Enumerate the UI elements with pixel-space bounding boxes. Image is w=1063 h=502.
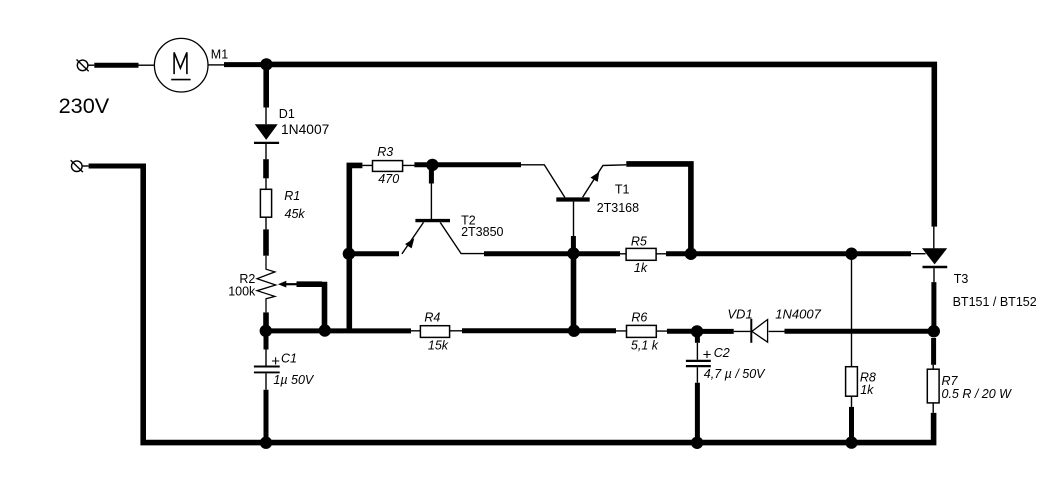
wire C1 to bottom rail: [264, 390, 269, 442]
wire left drop and bottom rail and right rise to R7: [143, 164, 933, 443]
wire VD1 to node F: [785, 329, 934, 334]
resistor R5 body: [626, 248, 656, 260]
node J junction dot: [845, 248, 857, 260]
potentiometer R2 zigzag: [257, 256, 276, 313]
svg-text:R6: R6: [631, 311, 647, 325]
thyristor T3 cathode lead: [933, 268, 935, 282]
capacitor C2 leads: [696, 343, 698, 383]
resistor R4 body: [420, 326, 449, 338]
svg-text:BT151 / BT152: BT151 / BT152: [953, 295, 1037, 309]
svg-text:470: 470: [378, 172, 399, 186]
wire T2 collector to node H: [484, 251, 573, 256]
svg-text:+: +: [271, 353, 280, 370]
resistor R7 leads: [932, 365, 934, 413]
diode D1 leads: [265, 107, 267, 189]
capacitor C1 plates: [254, 367, 280, 373]
svg-text:R7: R7: [942, 374, 959, 388]
svg-text:R3: R3: [377, 145, 393, 159]
bottom rail junction dot right: [845, 436, 857, 448]
wire node I to node J: [691, 251, 852, 256]
svg-text:R1: R1: [284, 189, 300, 203]
transistor T2 emitter arrow: [405, 238, 414, 248]
resistor R4 leads: [411, 330, 462, 332]
wire node K down to T2 base: [429, 165, 434, 184]
node E junction dot: [691, 325, 703, 337]
transistor T1 collector line: [521, 165, 565, 198]
svg-text:1N4007: 1N4007: [281, 122, 329, 137]
wire node D to R6: [574, 328, 616, 333]
node I junction dot: [685, 248, 697, 260]
node D junction dot: [568, 325, 580, 337]
wire R4 to node D: [462, 328, 574, 333]
wire node J to T3 gate: [852, 251, 912, 256]
wire motor to node A: [224, 62, 266, 67]
transistor T1 emitter line: [583, 165, 627, 198]
svg-text:0.5 R / 20 W: 0.5 R / 20 W: [942, 387, 1013, 401]
svg-text:100k: 100k: [228, 285, 256, 299]
node G junction dot: [343, 248, 355, 260]
svg-text:VD1: VD1: [727, 306, 752, 321]
node B junction dot: [260, 325, 272, 337]
wire R7 top to node F: [931, 338, 936, 365]
wire terminal2 to left drop: [89, 164, 144, 169]
wire R3 to T1 collector: [414, 162, 521, 167]
svg-text:+: +: [703, 346, 712, 363]
wire gate rail left segment from node G: [352, 251, 400, 256]
resistor R7 body: [927, 369, 939, 403]
resistor R8 bottom lead: [851, 396, 853, 407]
wire T1 base to node H: [571, 236, 576, 248]
svg-text:45k: 45k: [285, 207, 306, 221]
wire T1 emitter to node I corner: [626, 164, 691, 254]
resistor R6 body: [627, 325, 657, 337]
wire C2 to bottom rail: [695, 383, 700, 442]
wire top rail and right drop to T3 anode: [266, 64, 934, 226]
resistor R1 leads: [265, 217, 267, 229]
svg-text:C1: C1: [281, 352, 297, 366]
wire node E down to C2: [695, 332, 700, 343]
bottom rail junction dot left: [260, 437, 272, 449]
svg-text:1k: 1k: [860, 383, 874, 397]
resistor R8 body: [846, 367, 858, 397]
transistor T1 base bar: [556, 197, 589, 201]
node C junction dot: [319, 324, 331, 336]
wire R5 to node I: [666, 251, 691, 256]
wire node B rail to R4: [265, 328, 411, 333]
svg-text:1k: 1k: [634, 261, 648, 275]
wire node B down to C1: [264, 334, 269, 350]
transistor T2 base lead: [430, 184, 432, 220]
wire node E to VD1: [697, 329, 734, 334]
svg-text:D1: D1: [279, 107, 295, 121]
bottom rail junction dot middle: [691, 437, 703, 449]
resistor R6 leads: [616, 330, 667, 332]
wire node H down to node D: [571, 254, 577, 331]
svg-text:T3: T3: [954, 272, 969, 286]
resistor R1 body: [260, 189, 271, 217]
svg-text:R5: R5: [631, 235, 647, 249]
transistor T2 emitter line: [402, 222, 424, 254]
svg-text:C2: C2: [714, 346, 730, 360]
svg-text:R4: R4: [424, 311, 440, 325]
wire node H to R5: [573, 251, 620, 256]
wire R2 bottom to node B: [263, 312, 269, 331]
wire R1 to R2: [263, 229, 269, 255]
wire node F up to T3 cathode: [931, 282, 936, 331]
terminal X2: [71, 160, 89, 172]
diode D1 body: [254, 124, 279, 143]
svg-text:M1: M1: [211, 48, 228, 62]
resistor R3 leads: [362, 164, 414, 166]
diode VD1 body: [751, 319, 767, 343]
wire R6 to node E: [667, 329, 692, 334]
transistor T1 emitter arrow: [590, 172, 599, 182]
transistor T2 base bar: [415, 219, 450, 222]
svg-text:1N4007: 1N4007: [775, 306, 821, 321]
node F junction dot: [928, 325, 940, 337]
resistor R5 leads: [620, 253, 666, 255]
wire R3 corner and left vertical to node B rail: [349, 165, 362, 331]
svg-text:1µ 50V: 1µ 50V: [273, 373, 315, 387]
thyristor T3 anode lead: [933, 227, 935, 249]
transistor T1 base lead: [573, 202, 575, 236]
node H junction dot: [567, 247, 579, 259]
thyristor T3 body: [922, 248, 947, 267]
wire R2 wiper to node C: [297, 282, 325, 330]
transistor T2 collector line: [440, 222, 484, 253]
svg-text:2T3850: 2T3850: [461, 225, 503, 239]
thyristor T3 gate lead: [911, 253, 926, 255]
resistor R8 top wire from node J: [851, 257, 853, 367]
potentiometer R2 wiper arrow: [278, 281, 286, 288]
diode VD1 leads: [734, 330, 785, 332]
svg-text:4,7 µ / 50V: 4,7 µ / 50V: [704, 367, 766, 381]
capacitor C1 leads: [265, 350, 267, 390]
wire D1 to R1: [263, 159, 269, 178]
svg-text:2T3168: 2T3168: [597, 201, 639, 215]
node K junction dot: [426, 159, 438, 171]
potentiometer R2 wiper lead: [286, 283, 297, 285]
node A junction dot: [260, 58, 272, 70]
terminal X1: [77, 60, 95, 72]
svg-text:230V: 230V: [59, 93, 110, 118]
svg-text:T1: T1: [615, 183, 630, 197]
capacitor C2 plates: [686, 361, 711, 366]
wire node A down to D1: [263, 62, 269, 108]
motor M1: [139, 38, 225, 92]
wire R8 bottom to bottom rail: [849, 407, 854, 442]
svg-text:15k: 15k: [428, 339, 449, 353]
wire terminal1 to motor: [94, 63, 138, 68]
resistor R3 body: [373, 161, 403, 172]
svg-text:5,1 k: 5,1 k: [631, 339, 659, 353]
